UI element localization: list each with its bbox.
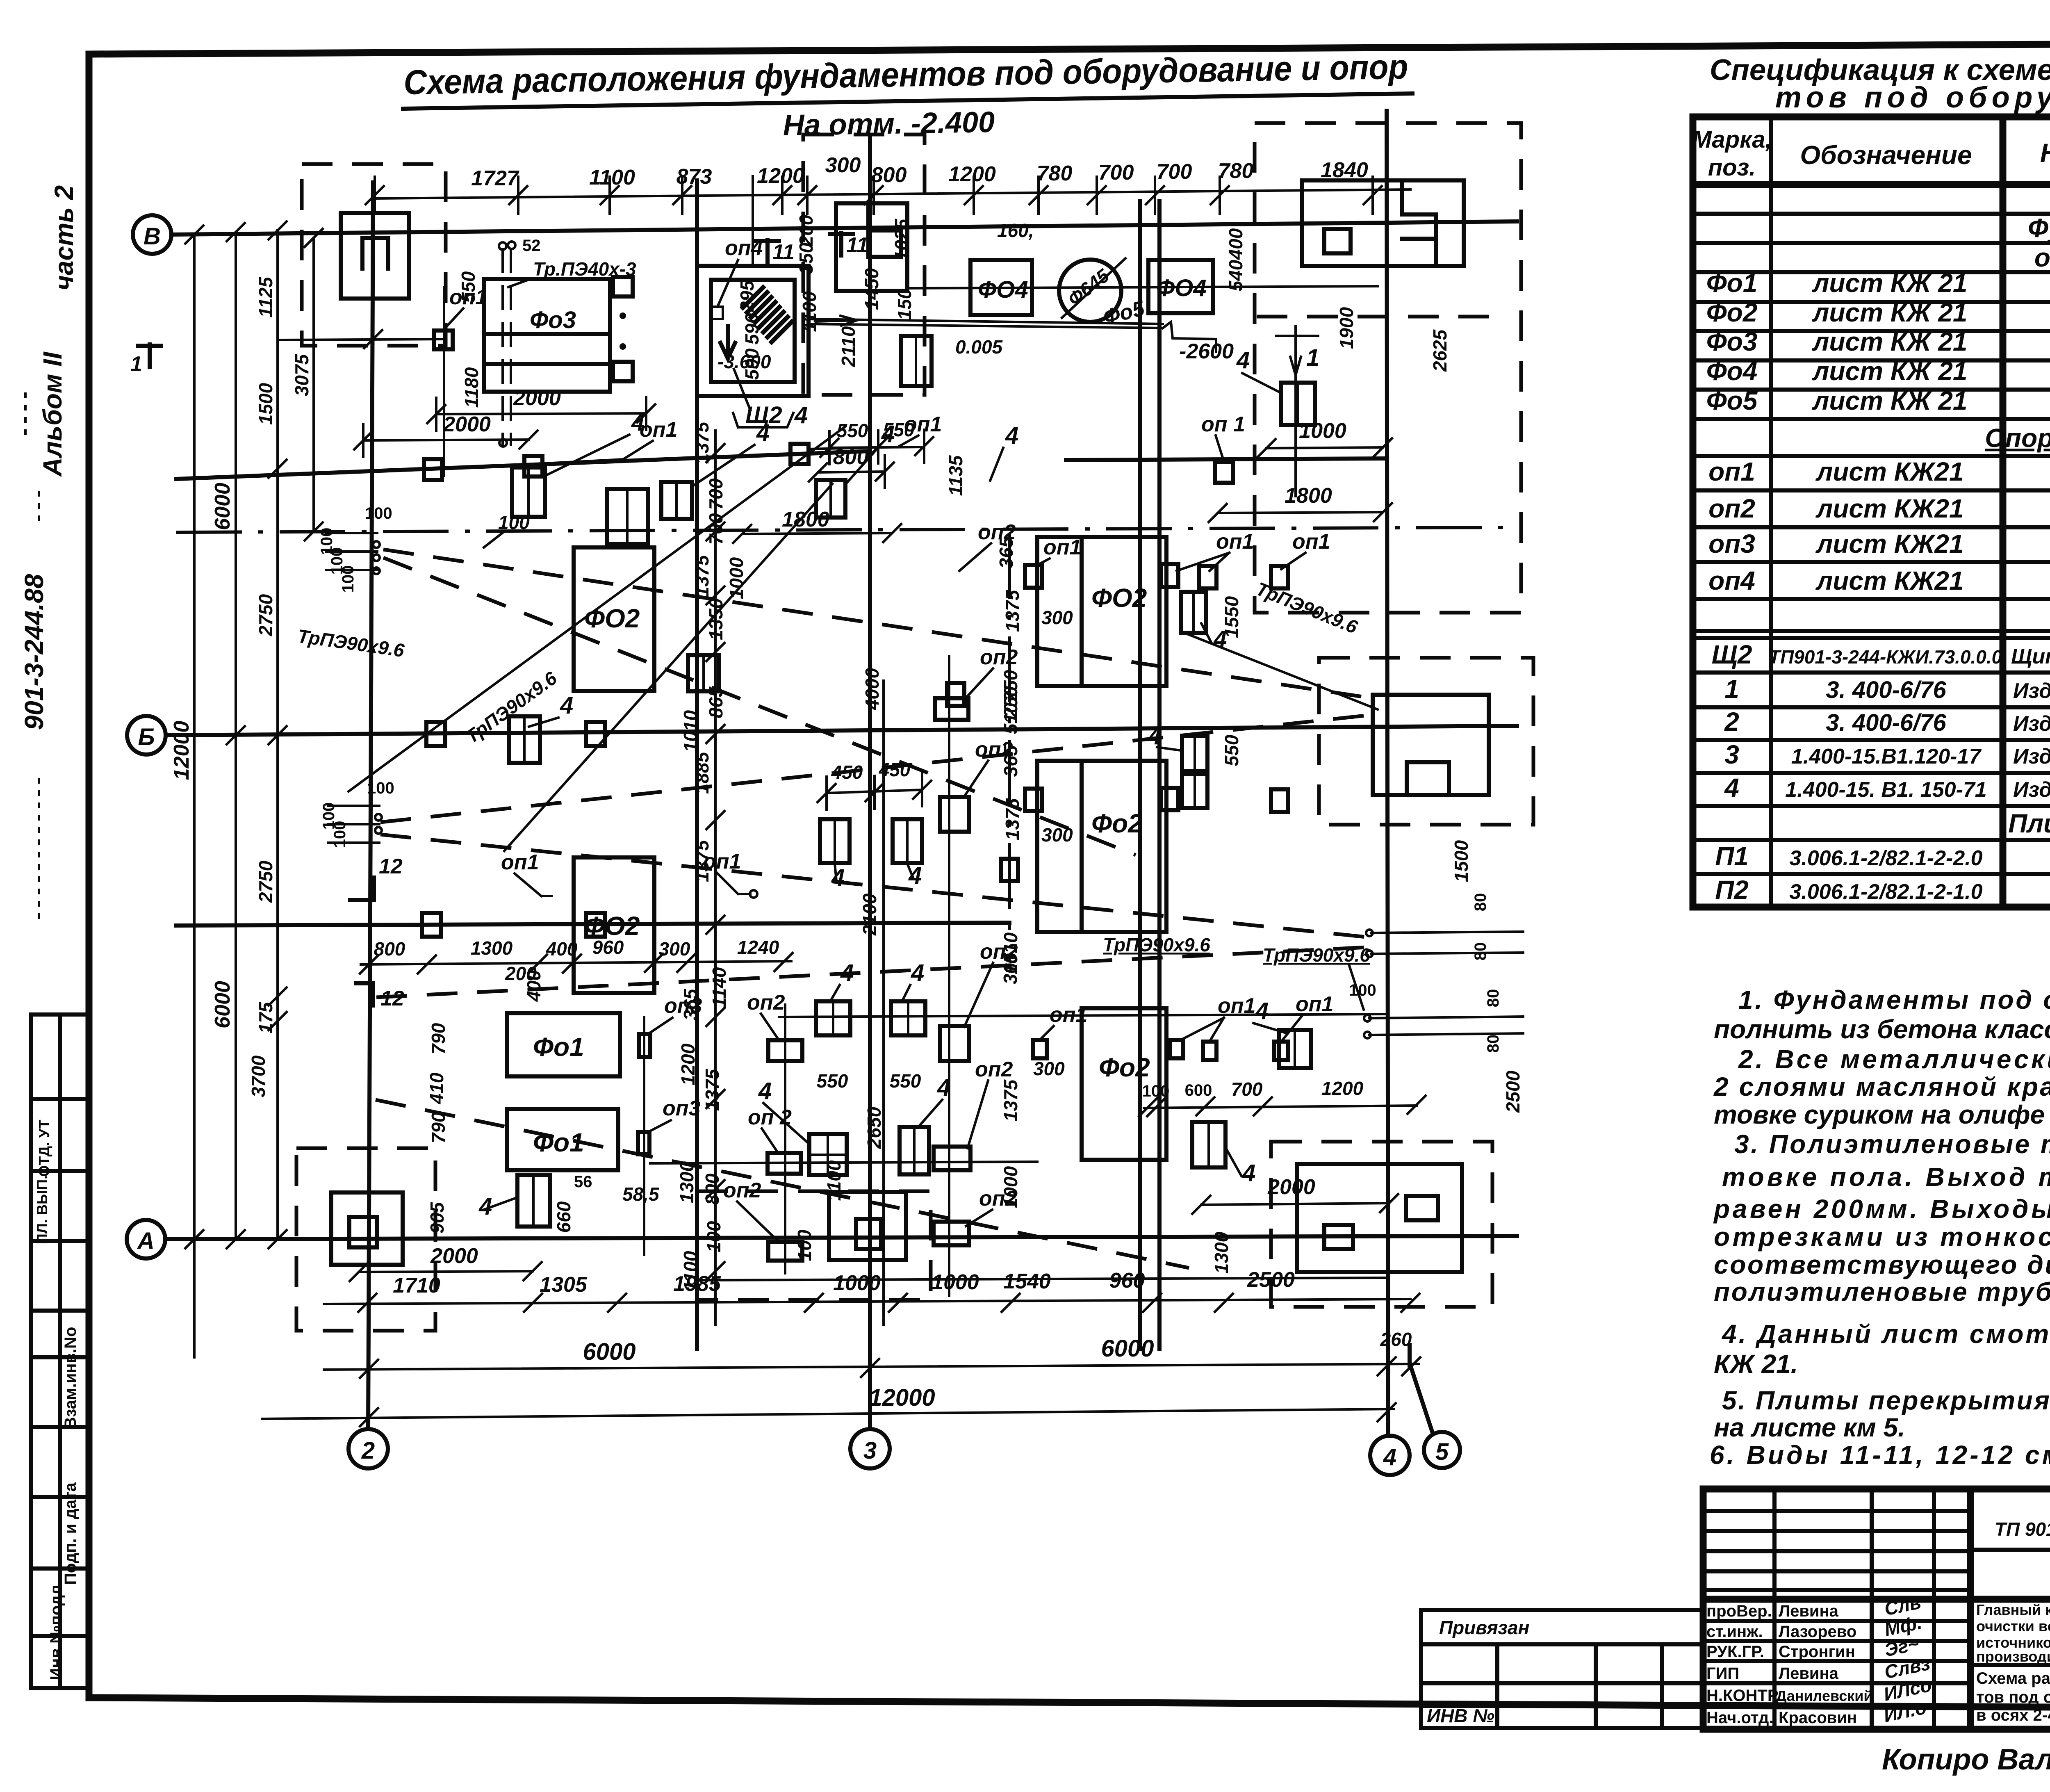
svg-text:2000: 2000 bbox=[443, 413, 491, 436]
label Sch2 bbox=[733, 369, 808, 429]
dim label a3 13 bbox=[461, 367, 482, 408]
embedded item 4 label 13 bbox=[1226, 1148, 1255, 1186]
axis 5 bbox=[1410, 1345, 1460, 1468]
op2 label 1 bbox=[959, 520, 1016, 571]
section mark 12 upper bbox=[350, 855, 403, 900]
table body text bbox=[1706, 213, 2050, 905]
vertical pipe pair bbox=[499, 242, 515, 447]
plate pair3 right bbox=[900, 1074, 950, 1174]
dim label a3 14 bbox=[736, 280, 758, 312]
svg-text:4: 4 bbox=[794, 402, 808, 429]
axis3 canal verticals bbox=[859, 668, 885, 1325]
svg-text:Фо1: Фо1 bbox=[1706, 268, 1758, 298]
embedded item 4 label 11 bbox=[1276, 326, 1319, 496]
svg-text:оп1: оп1 bbox=[1708, 457, 1755, 486]
dim label a3 15 bbox=[741, 313, 763, 344]
svg-text:ИНВ №: ИНВ № bbox=[1427, 1705, 1494, 1726]
section mark 12 lower bbox=[356, 983, 404, 1010]
svg-text:1375: 1375 bbox=[691, 554, 713, 597]
svg-text:оп1: оп1 bbox=[1216, 530, 1254, 554]
dim label 1 bbox=[622, 1183, 660, 1205]
small squares op4 on Fo3 bbox=[613, 277, 633, 381]
svg-text:Данилевский: Данилевский bbox=[1776, 1687, 1873, 1704]
svg-text:2000: 2000 bbox=[430, 1244, 478, 1268]
svg-text:600: 600 bbox=[1185, 1081, 1212, 1099]
svg-text:100: 100 bbox=[365, 504, 392, 522]
svg-text:11: 11 bbox=[772, 240, 795, 264]
embedded plate item 9 bbox=[1182, 736, 1207, 808]
support square 16 bbox=[639, 1034, 650, 1057]
title block: signatures grid bbox=[1703, 1489, 1970, 1729]
op2 label 2 bbox=[964, 645, 1018, 700]
section mark 1T top-left bbox=[130, 344, 161, 376]
dim label 9 bbox=[574, 1173, 592, 1191]
support square 11 bbox=[947, 683, 964, 706]
svg-text:1: 1 bbox=[1724, 674, 1739, 704]
svg-text:4: 4 bbox=[631, 409, 645, 436]
svg-text:1000: 1000 bbox=[932, 1270, 979, 1294]
svg-text:400: 400 bbox=[523, 970, 544, 1002]
op2 label 6 bbox=[966, 1187, 1017, 1226]
svg-text:1200: 1200 bbox=[677, 1043, 699, 1085]
embedded item 4 label 2 bbox=[693, 420, 770, 486]
dim label a3 12 bbox=[522, 237, 541, 255]
svg-text:ОТД. УТ: ОТД. УТ bbox=[36, 1119, 52, 1176]
svg-text:1100: 1100 bbox=[589, 166, 635, 189]
svg-text:780: 780 bbox=[1037, 162, 1073, 185]
op2 label 5 bbox=[968, 1058, 1013, 1148]
svg-text:800: 800 bbox=[374, 938, 405, 960]
svg-text:в осях 2-4: в осях 2-4 bbox=[1976, 1706, 2050, 1724]
svg-text:-2600: -2600 bbox=[1179, 340, 1234, 363]
svg-text:отрезками из тонкостенных с: отрезками из тонкостенных стальных труб bbox=[1714, 1222, 2050, 1252]
svg-text:700: 700 bbox=[1157, 160, 1192, 184]
svg-text:100: 100 bbox=[703, 1221, 724, 1252]
misc labels near axis3 bottom bbox=[794, 607, 1073, 1261]
embedded plate item 6 bbox=[1181, 592, 1206, 633]
svg-text:5. Плиты перекрытия П1 ; П2: 5. Плиты перекрытия П1 ; П2 замаркирован… bbox=[1722, 1386, 2050, 1415]
svg-text:ст.инж.: ст.инж. bbox=[1706, 1623, 1763, 1641]
svg-text:3.006.1-2/82.1-2-2.0: 3.006.1-2/82.1-2-2.0 bbox=[1789, 846, 1982, 870]
svg-text:Альбом II: Альбом II bbox=[38, 351, 67, 477]
svg-text:1200: 1200 bbox=[1321, 1078, 1364, 1099]
svg-text:56: 56 bbox=[574, 1173, 592, 1191]
dim line to op1 square bbox=[278, 330, 445, 348]
svg-text:В: В bbox=[143, 223, 161, 250]
section mark 11 right bbox=[830, 233, 868, 257]
support square 22 bbox=[1033, 1040, 1288, 1060]
dashed outline top-left bbox=[302, 164, 446, 346]
op1 label 4 bbox=[501, 850, 551, 896]
svg-text:3700: 3700 bbox=[248, 1055, 269, 1097]
mid dim 2000 upper bbox=[427, 386, 655, 431]
foundation Fo1 #1 bbox=[507, 1013, 620, 1076]
horizontal line y=701 through FO4 bbox=[907, 286, 1378, 288]
svg-text:Наименование: Наименование bbox=[2040, 138, 2050, 168]
svg-text:Опоры под трубопровод: Опоры под трубопровод bbox=[1985, 423, 2050, 453]
embedded item 4 label 5 bbox=[1201, 623, 1227, 652]
svg-text:200: 200 bbox=[795, 214, 817, 246]
dim label f2 8 bbox=[1000, 1079, 1021, 1122]
canal bottom box bbox=[697, 1191, 931, 1300]
dim label f2 1 bbox=[1002, 589, 1023, 632]
svg-text:590: 590 bbox=[741, 313, 763, 344]
svg-text:2625: 2625 bbox=[1429, 329, 1451, 372]
label op4 bbox=[711, 236, 763, 319]
support square 2 bbox=[424, 459, 442, 480]
support square 20 bbox=[1271, 789, 1288, 812]
svg-text:оп1: оп1 bbox=[1292, 530, 1330, 554]
specification table grid bbox=[1693, 117, 2050, 907]
dim 100/600/700/1200 bbox=[1139, 1078, 1426, 1116]
foundation Fo4 right bbox=[1148, 260, 1213, 313]
dim label a3 7 bbox=[997, 220, 1034, 241]
op2 label 7 bbox=[747, 991, 785, 1040]
vertical guide op3 bbox=[643, 1017, 645, 1255]
op1 label 2 bbox=[545, 418, 677, 463]
embedded plate item 3 bbox=[661, 482, 692, 519]
op1 label 11 bbox=[1181, 994, 1255, 1042]
support square 12 bbox=[422, 913, 441, 937]
svg-text:3.006.1-2/82.1-2-1.0: 3.006.1-2/82.1-2-1.0 bbox=[1789, 880, 1982, 904]
svg-text:1200: 1200 bbox=[948, 162, 996, 186]
foundation Fo1 #2 bbox=[507, 1109, 618, 1170]
svg-text:4: 4 bbox=[1242, 1160, 1255, 1186]
horizontal line y=3120 bbox=[697, 1278, 1387, 1280]
op1 label 6 bbox=[750, 890, 757, 898]
dashed diagonals bbox=[376, 549, 1367, 1268]
bottom captions bbox=[1882, 1735, 2050, 1785]
pipe labels TrPE90x9.6 bbox=[296, 578, 1371, 1010]
embedded plate item 1 bbox=[512, 467, 545, 517]
svg-text:очистки воды поверхностных: очистки воды поверхностных bbox=[1976, 1618, 2050, 1635]
svg-text:ТП901-3-244-КЖИ.73.0.0.0.: ТП901-3-244-КЖИ.73.0.0.0. bbox=[1769, 646, 2007, 668]
wall line W1 bbox=[695, 180, 699, 1349]
svg-text:Изделие закладноемн1-1: Изделие закладноемн1-1 bbox=[2013, 679, 2050, 703]
dim 550 550 under canal bbox=[820, 419, 933, 464]
svg-text:100: 100 bbox=[1349, 981, 1376, 999]
embedded item 4 label 9 bbox=[758, 1078, 809, 1144]
svg-text:100: 100 bbox=[339, 565, 357, 593]
svg-text:КЖ 21.: КЖ 21. bbox=[1714, 1349, 1798, 1379]
dim label f2 10 bbox=[1000, 952, 1021, 984]
slope pipe 0.005 bbox=[808, 316, 1234, 363]
svg-text:На отм. -2.400: На отм. -2.400 bbox=[783, 106, 995, 142]
left dim chain 12000 bbox=[170, 226, 203, 1357]
foundation Fo2 #4 bbox=[1037, 761, 1166, 932]
dim 1000 top right bbox=[1257, 419, 1392, 457]
svg-text:540: 540 bbox=[1225, 260, 1246, 291]
svg-text:оп1: оп1 bbox=[640, 418, 677, 442]
svg-text:Лазорево: Лазорево bbox=[1779, 1623, 1856, 1641]
op1 label 8 bbox=[1037, 536, 1081, 565]
svg-text:550: 550 bbox=[890, 1070, 921, 1092]
op2 label 4 bbox=[964, 940, 1018, 1027]
svg-text:80: 80 bbox=[1471, 942, 1490, 961]
svg-text:4: 4 bbox=[1383, 1444, 1396, 1471]
svg-text:лист КЖ 21: лист КЖ 21 bbox=[1812, 298, 1968, 327]
svg-text:80: 80 bbox=[1484, 1035, 1502, 1053]
svg-text:оп1: оп1 bbox=[904, 413, 942, 436]
embedded plate item 12 bbox=[517, 1175, 550, 1227]
svg-text:лист КЖ 21: лист КЖ 21 bbox=[1812, 356, 1968, 386]
axis A horizontal bbox=[127, 1220, 1517, 1259]
left dim 3075 bbox=[291, 229, 323, 540]
axis 4 vertical bbox=[1370, 111, 1410, 1475]
svg-text:1500: 1500 bbox=[255, 383, 276, 425]
svg-text:260: 260 bbox=[1380, 1329, 1412, 1350]
svg-text:1000: 1000 bbox=[726, 557, 747, 599]
dim label 4 bbox=[428, 1023, 449, 1054]
svg-text:1300: 1300 bbox=[471, 937, 513, 959]
svg-text:ФО4: ФО4 bbox=[978, 276, 1028, 303]
op1 label 7 bbox=[1201, 413, 1245, 461]
svg-text:550: 550 bbox=[817, 1070, 848, 1092]
svg-text:3075: 3075 bbox=[291, 353, 312, 396]
svg-text:ФО2: ФО2 bbox=[1091, 583, 1147, 613]
support square 14 bbox=[1001, 859, 1018, 881]
svg-text:оп2: оп2 bbox=[980, 645, 1018, 669]
svg-text:1: 1 bbox=[130, 352, 142, 376]
svg-text:Н.КОНТР.: Н.КОНТР. bbox=[1706, 1687, 1781, 1705]
svg-text:Подп. и дата: Подп. и дата bbox=[61, 1482, 80, 1585]
svg-text:1.400-15. В1. 150-71: 1.400-15. В1. 150-71 bbox=[1785, 778, 1986, 802]
svg-text:295: 295 bbox=[736, 280, 758, 312]
horizontal line y=2478 bbox=[779, 1014, 1387, 1017]
dim label 8 bbox=[523, 970, 544, 1002]
foundation Fo2 #5 bbox=[1082, 1008, 1166, 1160]
left margin vertical captions bbox=[19, 185, 79, 927]
axis3 top rects bbox=[836, 203, 907, 291]
dim label f2 11 bbox=[1211, 1231, 1232, 1274]
svg-text:лист КЖ21: лист КЖ21 bbox=[1815, 566, 1963, 595]
svg-text:52: 52 bbox=[522, 237, 541, 255]
svg-text:700: 700 bbox=[1098, 161, 1134, 185]
svg-text:2500: 2500 bbox=[1502, 1070, 1524, 1113]
embedded item 4 label 12 bbox=[1253, 998, 1287, 1033]
support square 9 bbox=[1199, 566, 1216, 588]
svg-text:590: 590 bbox=[741, 348, 763, 380]
dim 800 near axis3 bbox=[809, 445, 894, 488]
svg-text:150: 150 bbox=[894, 288, 915, 320]
svg-text:790: 790 bbox=[428, 1112, 449, 1143]
svg-text:12: 12 bbox=[379, 855, 403, 878]
svg-text:1100: 1100 bbox=[823, 1160, 845, 1201]
svg-text:4: 4 bbox=[1724, 773, 1739, 803]
svg-text:Обозначение: Обозначение bbox=[1800, 140, 1972, 170]
bottom dim 12000 bbox=[262, 1384, 1396, 1426]
svg-text:Стронгин: Стронгин bbox=[1779, 1643, 1855, 1661]
svg-text:300: 300 bbox=[1041, 824, 1073, 846]
svg-text:350: 350 bbox=[795, 242, 817, 274]
support square 7 bbox=[426, 722, 445, 746]
svg-text:12000: 12000 bbox=[869, 1384, 935, 1411]
svg-text:58,5: 58,5 bbox=[622, 1183, 660, 1205]
svg-text:ФО2: ФО2 bbox=[584, 604, 640, 633]
svg-text:Щ2: Щ2 bbox=[1712, 640, 1752, 669]
svg-text:800: 800 bbox=[702, 1173, 723, 1205]
svg-text:510: 510 bbox=[1000, 702, 1021, 734]
foundation Fo5 circle bbox=[1059, 258, 1147, 330]
dim label a3 6 bbox=[795, 242, 817, 274]
dashed outline top-center bbox=[803, 135, 925, 395]
foundation Fo2 #1 bbox=[574, 547, 654, 691]
label 100 under dash axis bbox=[484, 512, 530, 547]
svg-text:2: 2 bbox=[1724, 707, 1739, 736]
support square 19 bbox=[1161, 788, 1178, 810]
svg-text:поз.: поз. bbox=[1708, 154, 1756, 181]
dim 450 450 bbox=[818, 759, 931, 809]
dim label a3 9 bbox=[741, 348, 763, 380]
svg-text:2. Все металлические конс: 2. Все металлические конструкции окрасит… bbox=[1738, 1044, 2050, 1074]
svg-text:4: 4 bbox=[758, 1078, 772, 1104]
svg-text:1240: 1240 bbox=[737, 937, 779, 958]
op1 label 12 bbox=[1281, 992, 1333, 1042]
svg-text:А: А bbox=[137, 1228, 155, 1254]
svg-text:оп4: оп4 bbox=[1708, 566, 1755, 595]
svg-text:6000: 6000 bbox=[211, 981, 235, 1028]
svg-text:100: 100 bbox=[794, 1229, 815, 1261]
svg-text:4: 4 bbox=[1213, 626, 1227, 652]
pipes double y=2292/2316 right bbox=[1366, 930, 1523, 957]
svg-text:оп3: оп3 bbox=[663, 1097, 701, 1120]
op2 label 3 bbox=[963, 738, 1013, 798]
svg-text:4: 4 bbox=[1255, 998, 1269, 1024]
axis B2 horizontal bbox=[127, 716, 1517, 755]
svg-text:160,: 160, bbox=[997, 220, 1034, 241]
svg-text:Фо4: Фо4 bbox=[1706, 356, 1758, 386]
dim 2000 bottom right bbox=[1192, 1175, 1398, 1214]
foundation Fo2 #2 bbox=[574, 857, 654, 993]
foundation Fo2 #3 bbox=[1037, 537, 1166, 686]
bottom-right foundation bbox=[1271, 1142, 1492, 1307]
svg-text:Изделие закладноемн1-1: Изделие закладноемн1-1 bbox=[2013, 712, 2050, 736]
dim label a3 5 bbox=[795, 214, 817, 246]
svg-text:4: 4 bbox=[908, 862, 922, 889]
svg-text:на листе км 5.: на листе км 5. bbox=[1714, 1413, 1905, 1442]
svg-text:2100: 2100 bbox=[859, 893, 880, 936]
dim label 5 bbox=[428, 1112, 449, 1143]
svg-text:Фо3: Фо3 bbox=[1706, 327, 1758, 356]
svg-text:оп1: оп1 bbox=[1050, 1003, 1087, 1027]
dim 1800 bbox=[733, 508, 901, 543]
svg-text:1900: 1900 bbox=[1336, 307, 1357, 349]
svg-text:лист КЖ 21: лист КЖ 21 bbox=[1812, 386, 1968, 415]
svg-text:ТП 901-3-244.88: ТП 901-3-244.88 bbox=[1995, 1518, 2050, 1540]
svg-text:1135: 1135 bbox=[945, 455, 966, 496]
svg-text:Копиро Вал: Антипово: Копиро Вал: Антипово bbox=[1882, 1743, 2050, 1776]
svg-text:2750: 2750 bbox=[255, 860, 276, 903]
svg-text:тов под оборудование и опор: тов под оборудование и опор bbox=[1976, 1688, 2050, 1706]
svg-text:Взам.инв.No: Взам.инв.No bbox=[61, 1327, 80, 1429]
svg-text:П2: П2 bbox=[1715, 875, 1749, 905]
svg-text:часть 2: часть 2 bbox=[49, 185, 79, 291]
dim label f2 2 bbox=[995, 536, 1017, 568]
support square 4 bbox=[790, 444, 809, 464]
op1 label 9 bbox=[1177, 530, 1254, 571]
svg-text:4. Данный лист смотреть со: 4. Данный лист смотреть совместно с лист… bbox=[1721, 1319, 2050, 1349]
dim label f2 7 bbox=[1000, 932, 1021, 974]
horizontal line right y=1120 bbox=[1066, 458, 1387, 460]
svg-text:1140: 1140 bbox=[708, 967, 730, 1008]
svg-text:300: 300 bbox=[1033, 1058, 1065, 1079]
svg-text:6000: 6000 bbox=[1101, 1335, 1154, 1362]
svg-text:1450: 1450 bbox=[861, 268, 882, 310]
svg-text:800: 800 bbox=[871, 163, 907, 187]
svg-text:Левина: Левина bbox=[1779, 1602, 1839, 1620]
axis B horizontal bbox=[133, 215, 1517, 254]
svg-text:1000: 1000 bbox=[833, 1271, 881, 1295]
wall W2 double bbox=[1140, 201, 1159, 1349]
svg-text:1180: 1180 bbox=[461, 367, 482, 408]
top-left foundation bbox=[341, 213, 409, 299]
svg-text:1375: 1375 bbox=[1002, 798, 1023, 840]
svg-text:6000: 6000 bbox=[583, 1338, 635, 1365]
bottom dim 6000/6000/260 bbox=[324, 1329, 1420, 1378]
svg-text:873: 873 bbox=[676, 165, 712, 189]
svg-text:ФО4: ФО4 bbox=[1156, 275, 1207, 301]
svg-text:6. Виды 11-11, 12-12 см. на: 6. Виды 11-11, 12-12 см. на листе КЖ 21. bbox=[1710, 1440, 2050, 1470]
svg-text:1727: 1727 bbox=[471, 166, 519, 190]
dim label r 3 bbox=[1225, 228, 1246, 260]
svg-text:700: 700 bbox=[1231, 1078, 1263, 1100]
svg-text:оп1: оп1 bbox=[1218, 994, 1255, 1018]
svg-text:2: 2 bbox=[361, 1437, 375, 1464]
pipe diagonals bbox=[348, 426, 1378, 851]
svg-text:оп3: оп3 bbox=[664, 994, 702, 1018]
svg-text:Фундаменты под: Фундаменты под bbox=[2028, 213, 2050, 243]
svg-text:410: 410 bbox=[426, 1072, 447, 1104]
svg-text:2000: 2000 bbox=[1267, 1175, 1315, 1199]
svg-text:790: 790 bbox=[428, 1023, 449, 1054]
svg-text:Изделие закладноемн44в: Изделие закладноемн44в bbox=[2013, 778, 2050, 802]
embedded item 4 label 3 bbox=[846, 421, 895, 484]
foundation Fo3 bbox=[484, 279, 610, 392]
svg-text:оп3: оп3 bbox=[1708, 529, 1755, 559]
svg-text:11: 11 bbox=[846, 233, 868, 257]
svg-text:1025: 1025 bbox=[891, 218, 912, 261]
embedded plate item 4 bbox=[816, 480, 845, 518]
support square 5 bbox=[1215, 462, 1233, 483]
op1 label 13 bbox=[1040, 1003, 1087, 1040]
svg-text:товке суриком на олифе „: товке суриком на олифе „ оксоль" bbox=[1714, 1100, 2050, 1129]
svg-text:Главный корпус для станции: Главный корпус для станции bbox=[1976, 1601, 2050, 1618]
bottom dim row 1710/1305/1985/1000/1000/1540/960/2500 bbox=[324, 1268, 1419, 1312]
privyazan table bbox=[1421, 1610, 1703, 1728]
support square 18 bbox=[768, 1040, 802, 1261]
op3 label 1 bbox=[648, 994, 702, 1034]
dim label 3 bbox=[426, 1202, 448, 1233]
svg-text:Изделие закладноемн-6: Изделие закладноемн-6 bbox=[2013, 745, 2050, 768]
svg-text:лист КЖ21: лист КЖ21 bbox=[1815, 457, 1963, 486]
svg-text:300: 300 bbox=[659, 938, 690, 960]
embedded item 4 label 1 bbox=[545, 409, 645, 476]
dim label f2 6 bbox=[1002, 798, 1023, 840]
bottom-left foundation bbox=[296, 1148, 517, 1331]
embedded plate item 8 bbox=[688, 655, 719, 691]
svg-text:Схема расположения фундамен: Схема расположения фундамен bbox=[1976, 1669, 2050, 1687]
support square 13 bbox=[586, 913, 605, 937]
op2 label 9 bbox=[723, 1179, 779, 1242]
svg-text:1375: 1375 bbox=[702, 1068, 723, 1111]
main title bbox=[403, 48, 1412, 142]
svg-text:4: 4 bbox=[937, 1074, 950, 1101]
svg-text:3. Полиэтиленовые трубы: 3. Полиэтиленовые трубы в бетонной подго… bbox=[1734, 1129, 2050, 1159]
svg-text:1: 1 bbox=[1306, 344, 1319, 371]
op1 label 1 bbox=[444, 285, 487, 330]
svg-text:лист КЖ21: лист КЖ21 bbox=[1815, 529, 1963, 559]
svg-text:Привязан: Привязан bbox=[1439, 1617, 1529, 1638]
